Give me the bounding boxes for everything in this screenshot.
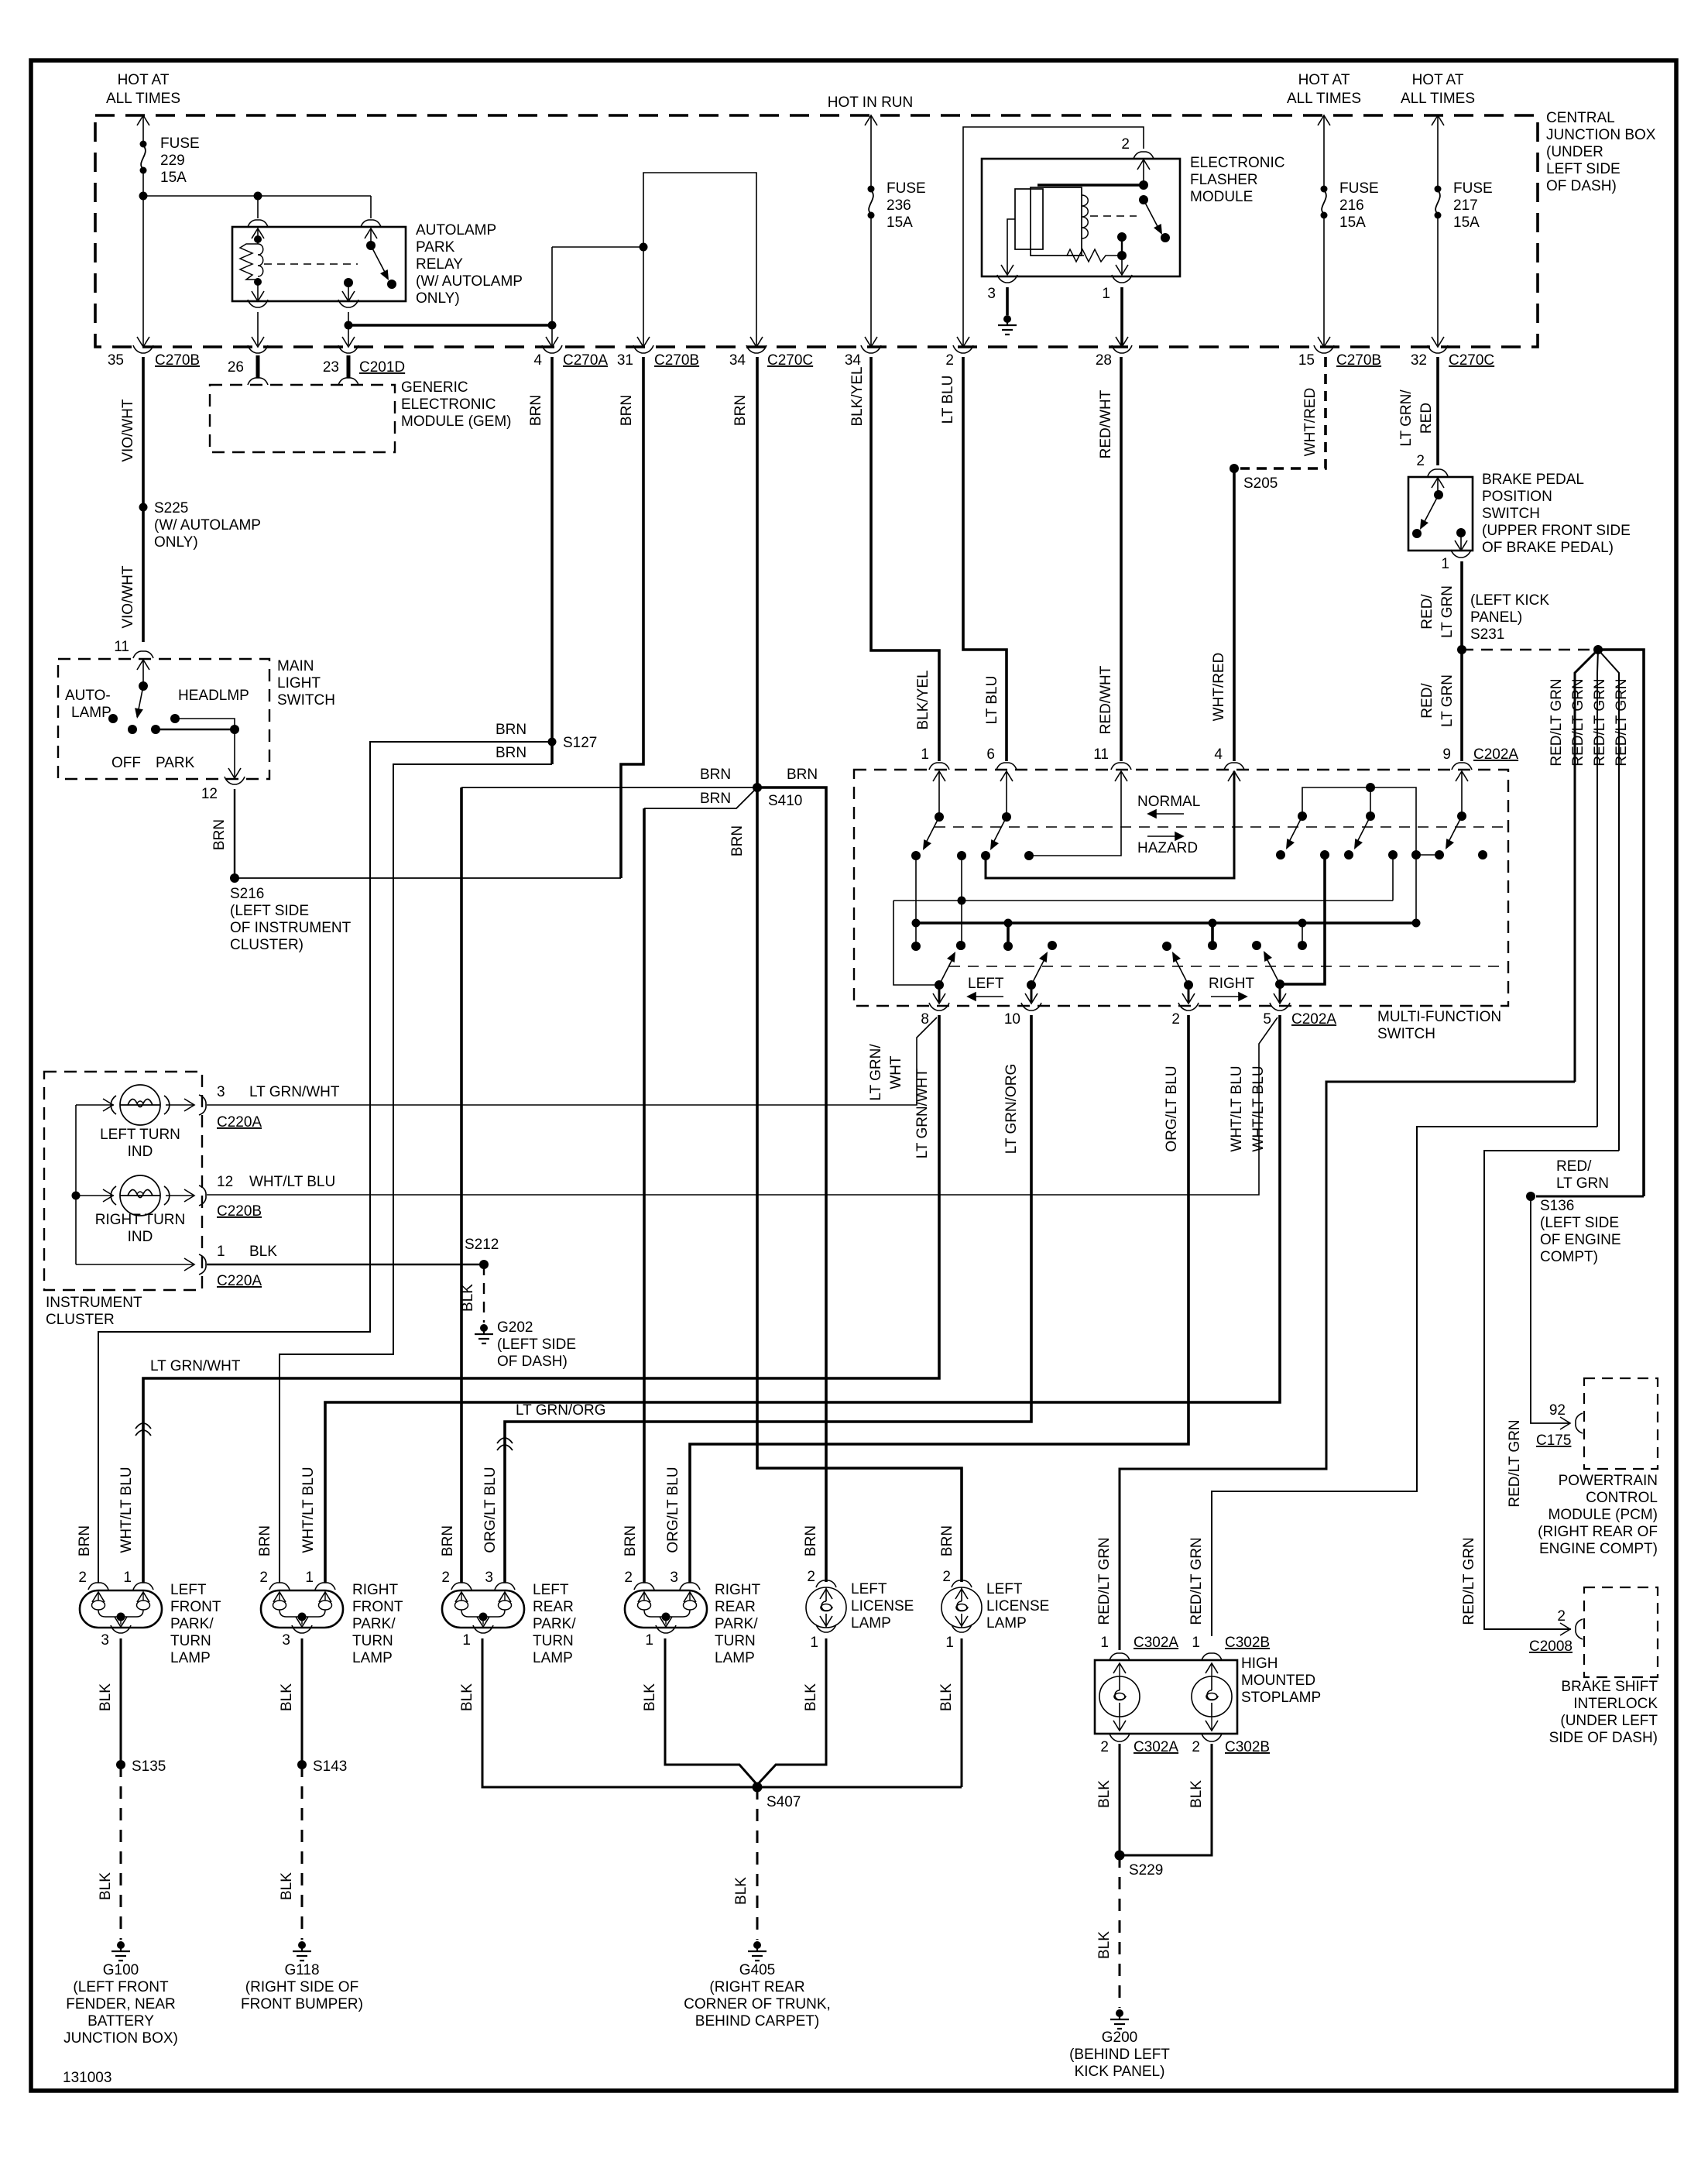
MFS row separator dashed (normal/hazard): [935, 826, 1506, 828]
svg-text:GENERIC: GENERIC: [401, 379, 468, 396]
flasher pin 3 connector: [997, 275, 1017, 283]
svg-text:RED/LT GRN: RED/LT GRN: [1507, 1419, 1523, 1507]
svg-text:6: 6: [986, 746, 995, 763]
MFS switch pin 10: [1027, 980, 1036, 990]
node junction on pin31 wire: [640, 243, 648, 252]
svg-text:RED/LT GRN: RED/LT GRN: [1549, 678, 1565, 766]
wire LT GRN/RED pin 32 to brake pedal position switch: [1436, 357, 1439, 465]
left turn indicator bulb: [111, 1085, 170, 1125]
svg-text:JUNCTION BOX: JUNCTION BOX: [1546, 127, 1656, 143]
svg-text:C202A: C202A: [1473, 746, 1518, 763]
svg-text:2: 2: [942, 1569, 951, 1585]
IC pin 12 connector: [166, 1195, 194, 1196]
MFS top pin 11 connector: [1111, 763, 1131, 770]
wire RED/LT GRN riser 3 to brake shift interlock C2008: [1484, 1151, 1619, 1629]
instrument cluster dashed box: [44, 1072, 202, 1290]
svg-text:RED/WHT: RED/WHT: [1098, 665, 1114, 734]
relay dashed actuator link: [264, 263, 358, 265]
svg-text:RED/: RED/: [1419, 683, 1435, 719]
svg-text:LT BLU: LT BLU: [984, 676, 1000, 725]
svg-text:SWITCH: SWITCH: [277, 692, 335, 709]
svg-text:OF ENGINE: OF ENGINE: [1540, 1232, 1621, 1248]
wire LT BLU pin 2 to MFS pin 6: [963, 357, 1007, 761]
svg-text:15A: 15A: [1339, 214, 1366, 231]
svg-text:LT GRN/WHT: LT GRN/WHT: [150, 1358, 241, 1374]
node splice S231: [1457, 645, 1466, 654]
svg-text:HOT AT: HOT AT: [1298, 72, 1350, 88]
flasher pin 1 connector: [1112, 275, 1132, 283]
wire flasher pin 1 to CJB pin 28: [1120, 287, 1123, 345]
svg-text:OF DASH): OF DASH): [497, 1354, 568, 1370]
wire BRN S410 down to right license lamp pin 2: [757, 787, 962, 1582]
svg-text:S135: S135: [132, 1758, 166, 1775]
generic electronic module GEM dashed box: [210, 385, 395, 452]
svg-text:1: 1: [1441, 556, 1449, 572]
pin 34 C270C connector: [750, 337, 763, 347]
wire S231 down to MFS pin 9: [1460, 650, 1463, 761]
svg-text:2: 2: [1171, 1011, 1180, 1028]
svg-text:C2008: C2008: [1529, 1638, 1573, 1655]
node splice S212: [479, 1260, 489, 1269]
svg-text:HIGH: HIGH: [1241, 1655, 1278, 1672]
flasher switch blade: [1144, 200, 1161, 232]
svg-text:131003: 131003: [63, 2070, 111, 2086]
svg-text:HOT IN RUN: HOT IN RUN: [828, 94, 913, 111]
svg-text:LIGHT: LIGHT: [277, 675, 321, 691]
MFS left zigzag to LEFT switch pivot: [893, 901, 939, 985]
svg-text:PARK/: PARK/: [352, 1616, 396, 1632]
svg-text:C302A: C302A: [1134, 1739, 1178, 1755]
MLS contact HEADLMP: [170, 714, 180, 723]
node splice S205: [1230, 464, 1239, 473]
node splice S225: [139, 503, 148, 512]
wire junction to pin 4 BRN vertical: [348, 324, 552, 327]
svg-text:1: 1: [645, 1632, 653, 1649]
svg-text:2: 2: [1557, 1608, 1566, 1625]
brake switch common and blade: [1437, 478, 1439, 495]
wire BRN pin 4 C270A down to S127: [550, 357, 554, 764]
svg-text:LT GRN/WHT: LT GRN/WHT: [914, 1068, 931, 1158]
svg-text:ALL TIMES: ALL TIMES: [1287, 91, 1361, 107]
svg-text:TURN: TURN: [715, 1633, 756, 1649]
svg-text:ORG/LT BLU: ORG/LT BLU: [665, 1467, 681, 1553]
svg-text:(UNDER: (UNDER: [1546, 144, 1603, 160]
svg-text:ORG/LT BLU: ORG/LT BLU: [1164, 1065, 1180, 1151]
pin 35 C270B connector at CJB: [137, 337, 149, 347]
svg-text:BRN: BRN: [787, 767, 818, 783]
svg-text:G202: G202: [497, 1319, 533, 1336]
svg-text:(UNDER LEFT: (UNDER LEFT: [1560, 1713, 1658, 1729]
relay switch pin connector (top): [361, 220, 381, 227]
lamp body: [80, 1590, 162, 1628]
svg-text:RELAY: RELAY: [416, 256, 463, 273]
MFS bottom pin 8 connector: [929, 1003, 949, 1010]
svg-text:LT GRN/: LT GRN/: [868, 1044, 884, 1101]
svg-text:C220A: C220A: [217, 1114, 262, 1131]
ground G200: [1110, 2009, 1129, 2029]
wire BLK right rear lamp pin 1 to S407: [665, 1638, 757, 1785]
svg-text:S410: S410: [768, 793, 802, 809]
pin 28 (RED/WHT) connector: [1116, 337, 1128, 347]
svg-text:LT GRN: LT GRN: [1439, 585, 1456, 638]
svg-text:CONTROL: CONTROL: [1586, 1490, 1658, 1506]
svg-text:(BEHIND LEFT: (BEHIND LEFT: [1069, 2047, 1170, 2063]
fuse 216 15A with feed arrow: [1318, 115, 1330, 125]
svg-text:8: 8: [921, 1011, 929, 1028]
svg-text:RIGHT: RIGHT: [352, 1582, 399, 1598]
svg-text:BLK: BLK: [98, 1683, 114, 1711]
svg-text:15: 15: [1298, 352, 1315, 369]
MFS contact chain vertical at 1183: [915, 856, 917, 946]
wire BLK dashed S143 to G118: [301, 1765, 304, 1940]
svg-text:3: 3: [282, 1632, 290, 1649]
svg-text:PARK: PARK: [156, 755, 195, 771]
svg-text:(RIGHT REAR OF: (RIGHT REAR OF: [1538, 1524, 1658, 1540]
svg-text:VIO/WHT: VIO/WHT: [120, 399, 136, 462]
svg-text:BLK: BLK: [1096, 1931, 1113, 1959]
pin 32 C270C connector: [1432, 337, 1444, 347]
wire RED/LT GRN fan to vertical 2: [1597, 650, 1598, 1127]
wire WHT/RED S205 to MFS pin 4: [1233, 468, 1236, 761]
svg-text:(LEFT KICK: (LEFT KICK: [1470, 592, 1549, 609]
wire RED/LT GRN riser 4 to S136: [1536, 1196, 1644, 1198]
right license lamp (labelled LEFT LICENSE LAMP): [952, 1580, 972, 1587]
svg-text:ENGINE COMPT): ENGINE COMPT): [1539, 1541, 1658, 1557]
wire BRN S410 right branch to left license lamp pin 2: [757, 787, 826, 1582]
svg-text:SWITCH: SWITCH: [1377, 1026, 1435, 1042]
svg-text:FRONT: FRONT: [170, 1599, 221, 1615]
svg-text:G118: G118: [284, 1962, 319, 1978]
svg-text:FRONT BUMPER): FRONT BUMPER): [241, 1996, 363, 2012]
MFS pin 9 switch: [1456, 771, 1468, 781]
svg-text:S229: S229: [1129, 1862, 1163, 1879]
svg-text:WHT: WHT: [888, 1055, 904, 1089]
svg-text:15A: 15A: [160, 170, 187, 186]
wire BLK dashed S229 to G200: [1119, 1855, 1121, 2008]
svg-text:35: 35: [108, 352, 124, 369]
svg-text:23: 23: [323, 359, 339, 376]
svg-text:HOT AT: HOT AT: [1412, 72, 1464, 88]
svg-text:BRN: BRN: [77, 1525, 93, 1556]
svg-text:CLUSTER: CLUSTER: [46, 1312, 115, 1328]
relay bottom pin 26 connector: [252, 291, 264, 301]
ground G118: [293, 1941, 311, 1961]
svg-text:1: 1: [123, 1570, 132, 1586]
svg-text:BLK: BLK: [460, 1284, 476, 1312]
pin 26 connector at CJB: [252, 337, 264, 347]
wire fuse bus down to relay coil pin: [257, 196, 259, 218]
svg-text:1: 1: [810, 1635, 818, 1651]
svg-text:BRN: BRN: [732, 395, 749, 426]
svg-text:2: 2: [624, 1570, 633, 1586]
wire RED/LT GRN riser 1 to high mounted stoplamp C302A: [1120, 1082, 1575, 1650]
svg-text:RED/WHT: RED/WHT: [1098, 389, 1114, 458]
svg-text:LAMP: LAMP: [851, 1615, 891, 1631]
svg-text:OF INSTRUMENT: OF INSTRUMENT: [230, 920, 352, 936]
svg-text:WHT/LT BLU: WHT/LT BLU: [249, 1174, 335, 1190]
svg-text:(LEFT SIDE: (LEFT SIDE: [497, 1336, 576, 1353]
svg-text:HOT AT: HOT AT: [118, 72, 170, 88]
svg-text:3: 3: [217, 1084, 225, 1100]
svg-text:9: 9: [1442, 746, 1451, 763]
wire WHT/LT BLU IC pin12 to MFS pin 5 (thin): [207, 1017, 1278, 1195]
ground G405: [748, 1941, 767, 1961]
svg-text:LEFT: LEFT: [968, 976, 1004, 992]
wire BLK/YEL pin 34 to MFS pin 1: [871, 357, 939, 761]
svg-text:15A: 15A: [1453, 214, 1480, 231]
svg-text:217: 217: [1453, 197, 1478, 214]
svg-text:WHT/LT BLU: WHT/LT BLU: [1250, 1065, 1267, 1151]
wire BRN pin 31 C270B down to S216: [621, 357, 643, 878]
wire dashed S231 to right distribution node: [1462, 649, 1598, 650]
svg-text:BRN: BRN: [700, 767, 731, 783]
relay coil with parallel resistor: [257, 228, 259, 244]
wire BLK dashed S407 to G405: [756, 1787, 759, 1940]
svg-text:LT GRN/WHT: LT GRN/WHT: [249, 1084, 340, 1100]
wire LT GRN/WHT IC pin3 to MFS pin 8 (thin): [207, 1017, 937, 1105]
svg-text:2: 2: [259, 1570, 268, 1586]
svg-text:4: 4: [1214, 746, 1223, 763]
wire RED/LT GRN S136 to PCM C175 pin 92: [1531, 1196, 1570, 1423]
svg-text:LEFT SIDE: LEFT SIDE: [1546, 161, 1621, 177]
svg-text:(RIGHT REAR: (RIGHT REAR: [709, 1979, 804, 1995]
svg-text:12: 12: [201, 786, 218, 802]
wire BLK stoplamp C302B to S229: [1120, 1744, 1212, 1855]
svg-text:2: 2: [441, 1570, 450, 1586]
stoplamp bulb 1: [1099, 1676, 1140, 1717]
svg-text:HAZARD: HAZARD: [1137, 840, 1198, 856]
wire BLK right license lamp pin 1 to S407: [961, 1638, 963, 1787]
svg-text:WHT/RED: WHT/RED: [1302, 388, 1319, 457]
wire RED/LT GRN to vertical 4: [1598, 650, 1644, 1196]
wire WHT/LT BLU MFS pin 5 to right front lamp pin 1: [325, 1015, 1280, 1583]
svg-text:5: 5: [1263, 1011, 1271, 1028]
svg-text:BRN: BRN: [729, 825, 746, 856]
pin 23 C201D connector at CJB: [342, 337, 355, 347]
wire fuse bus down to relay switch pin: [370, 196, 372, 218]
wire BRN S216 to pin 31 riser: [235, 877, 621, 879]
svg-text:LAMP: LAMP: [533, 1650, 573, 1666]
pin 34 (BLK/YEL) connector: [865, 337, 877, 347]
svg-text:C201D: C201D: [359, 359, 405, 376]
svg-text:C270C: C270C: [1449, 352, 1494, 369]
MLS switch common and blade: [142, 660, 144, 686]
svg-text:BLK: BLK: [279, 1683, 295, 1711]
wire RED/WHT pin 28 to MFS pin 11: [1120, 357, 1123, 761]
svg-text:PARK: PARK: [416, 239, 455, 256]
MLS contact AUTO-LAMP: [108, 714, 118, 723]
svg-text:4: 4: [533, 352, 542, 369]
IC internal wires: [76, 1104, 114, 1106]
svg-text:(W/ AUTOLAMP: (W/ AUTOLAMP: [154, 517, 261, 534]
brake shift interlock connector C2008 pin 2: [1560, 1623, 1570, 1635]
node splice S216: [230, 873, 239, 883]
svg-text:G100: G100: [103, 1962, 139, 1978]
MFS top pin 6 connector: [996, 763, 1017, 770]
svg-text:BRN: BRN: [496, 722, 526, 738]
node fuse229 output junction: [139, 192, 148, 201]
svg-text:COMPT): COMPT): [1540, 1249, 1598, 1265]
svg-text:PARK/: PARK/: [170, 1616, 214, 1632]
svg-text:LEFT: LEFT: [986, 1581, 1023, 1597]
svg-text:LAMP: LAMP: [170, 1650, 211, 1666]
wire pin 31 inside CJB down to connector: [643, 247, 644, 345]
svg-text:RED/: RED/: [1419, 594, 1435, 630]
svg-text:LAMP: LAMP: [986, 1615, 1027, 1631]
svg-text:1: 1: [1102, 286, 1110, 302]
svg-text:S136: S136: [1540, 1198, 1574, 1214]
node junction relay-GEM wire to BRN bus: [345, 321, 353, 330]
svg-text:32: 32: [1411, 352, 1427, 369]
svg-text:C270B: C270B: [1336, 352, 1381, 369]
svg-text:C270B: C270B: [155, 352, 200, 369]
svg-text:31: 31: [617, 352, 633, 369]
wire BRN MLS pin 12 to S216: [234, 789, 235, 878]
svg-text:RED/LT GRN: RED/LT GRN: [1614, 678, 1630, 766]
svg-text:IND: IND: [128, 1144, 153, 1160]
fuse 236 15A with HOT IN RUN arrow: [865, 115, 877, 125]
IC pin 3 connector: [166, 1104, 194, 1106]
node splice S143: [297, 1760, 307, 1769]
svg-text:(LEFT FRONT: (LEFT FRONT: [73, 1979, 169, 1995]
svg-text:1: 1: [945, 1635, 954, 1651]
svg-text:BLK: BLK: [249, 1244, 277, 1260]
svg-text:1: 1: [1192, 1635, 1200, 1651]
svg-text:G405: G405: [739, 1962, 775, 1978]
svg-text:LICENSE: LICENSE: [851, 1598, 914, 1614]
lamp body: [261, 1590, 343, 1628]
svg-text:FRONT: FRONT: [352, 1599, 403, 1615]
svg-text:LICENSE: LICENSE: [986, 1598, 1049, 1614]
pin 4 C270A connector: [546, 337, 558, 347]
svg-text:VIO/WHT: VIO/WHT: [120, 565, 136, 629]
svg-text:1: 1: [462, 1632, 471, 1649]
svg-text:C220A: C220A: [217, 1273, 262, 1289]
PCM connector C175 pin 92: [1560, 1417, 1570, 1429]
wire RED/LT GRN fan to vertical 3: [1598, 650, 1619, 1151]
svg-text:HEADLMP: HEADLMP: [178, 688, 249, 704]
svg-text:2: 2: [807, 1569, 815, 1585]
relay switch throw contact to pin 23: [344, 278, 353, 287]
svg-text:SIDE OF DASH): SIDE OF DASH): [1549, 1730, 1658, 1746]
svg-text:BLK: BLK: [803, 1683, 819, 1711]
svg-text:1: 1: [1100, 1635, 1109, 1651]
svg-text:JUNCTION BOX): JUNCTION BOX): [63, 2030, 178, 2047]
svg-text:ELECTRONIC: ELECTRONIC: [1190, 155, 1284, 171]
node splice S135: [116, 1760, 125, 1769]
svg-text:LEFT: LEFT: [170, 1582, 207, 1598]
node splice S407: [753, 1782, 763, 1793]
svg-text:MODULE (GEM): MODULE (GEM): [401, 413, 512, 430]
svg-text:S407: S407: [767, 1794, 801, 1810]
svg-text:OFF: OFF: [111, 755, 141, 771]
MFS thin bus: [893, 900, 1393, 901]
svg-text:2: 2: [1192, 1739, 1200, 1755]
wire RED/LT GRN riser 2 to stoplamp C302B: [1212, 1127, 1597, 1636]
svg-text:C270B: C270B: [654, 352, 699, 369]
MFS RIGHT switch (pin 2): [1184, 980, 1193, 990]
svg-text:MODULE: MODULE: [1190, 189, 1253, 205]
brake shift interlock dashed box: [1584, 1587, 1658, 1677]
wire RED/LT GRN brake switch pin 1 to S231: [1460, 561, 1463, 650]
wire BRN S127 branch to left front lamp pin 2: [98, 742, 552, 1583]
MLS pin 12 connector: [225, 777, 245, 784]
svg-text:28: 28: [1096, 352, 1112, 369]
node splice S136: [1526, 1192, 1535, 1201]
flasher transformer/relay element: [1015, 189, 1043, 249]
svg-text:LAMP: LAMP: [71, 705, 111, 721]
svg-text:MODULE (PCM): MODULE (PCM): [1549, 1507, 1658, 1523]
svg-text:S216: S216: [230, 886, 264, 902]
svg-text:ONLY): ONLY): [154, 534, 198, 551]
svg-text:BRN: BRN: [700, 791, 731, 807]
wire BLK left license lamp pin 1 to S407: [757, 1638, 826, 1785]
MFS upper right switch 1: [1298, 811, 1307, 821]
svg-text:10: 10: [1004, 1011, 1020, 1028]
svg-text:IND: IND: [128, 1229, 153, 1245]
svg-text:ORG/LT BLU: ORG/LT BLU: [482, 1467, 499, 1553]
svg-text:C270A: C270A: [563, 352, 608, 369]
svg-text:BLK: BLK: [1188, 1780, 1205, 1808]
svg-text:229: 229: [160, 153, 185, 169]
svg-text:(LEFT SIDE: (LEFT SIDE: [230, 903, 309, 919]
flasher pin 3 internal wire: [1007, 219, 1015, 273]
svg-text:LT GRN/ORG: LT GRN/ORG: [1003, 1064, 1020, 1154]
svg-text:PARK/: PARK/: [533, 1616, 576, 1632]
svg-text:2: 2: [1121, 136, 1130, 153]
svg-text:C202A: C202A: [1291, 1011, 1336, 1028]
wire WHT/RED dashed pin 15 to S205: [1240, 357, 1326, 468]
node splice S410: [753, 783, 762, 792]
svg-text:BRN: BRN: [939, 1525, 955, 1556]
relay coil pin connector (top): [248, 220, 268, 227]
svg-text:LT GRN/: LT GRN/: [1398, 389, 1415, 447]
svg-text:RED/LT GRN: RED/LT GRN: [1570, 678, 1586, 766]
svg-text:3: 3: [987, 286, 996, 302]
MFS bottom pin 10 connector: [1021, 1003, 1041, 1010]
wire fuse 229 to relay bus: [143, 195, 371, 197]
svg-text:MOUNTED: MOUNTED: [1241, 1673, 1315, 1689]
flasher internal switch common: [1143, 160, 1144, 185]
svg-text:S143: S143: [313, 1758, 347, 1775]
wire BLK left front lamp pin 3 to S135: [120, 1638, 122, 1765]
svg-text:CORNER OF TRUNK,: CORNER OF TRUNK,: [684, 1996, 831, 2012]
node splice S229: [1115, 1851, 1125, 1861]
svg-text:INSTRUMENT: INSTRUMENT: [46, 1295, 142, 1311]
MFS upper right switch 2: [1366, 811, 1375, 821]
MFS thick bus: [916, 921, 1416, 925]
wire BLK right front lamp pin 3 to S143: [301, 1638, 304, 1765]
svg-text:PARK/: PARK/: [715, 1616, 758, 1632]
svg-text:LAMP: LAMP: [352, 1650, 393, 1666]
svg-text:2: 2: [1416, 453, 1425, 469]
svg-text:RIGHT: RIGHT: [1209, 976, 1255, 992]
wire LT GRN/WHT MFS pin 8 to left front lamp pin 1: [143, 1015, 939, 1583]
node splice S127: [548, 738, 557, 746]
svg-text:LT GRN: LT GRN: [1439, 674, 1456, 727]
svg-text:LT BLU: LT BLU: [940, 376, 956, 424]
fuse 217 15A with feed arrow: [1432, 115, 1444, 125]
MFS bottom pin 5 connector: [1270, 1003, 1290, 1010]
svg-text:216: 216: [1339, 197, 1364, 214]
wire VIO/WHT pin 35 upper: [142, 196, 144, 347]
svg-text:RED/: RED/: [1556, 1158, 1592, 1175]
right turn indicator bulb: [111, 1175, 170, 1216]
pin 2 (LT BLU) connector: [957, 337, 969, 347]
flasher dashed actuator link: [1090, 215, 1137, 217]
svg-text:BRAKE PEDAL: BRAKE PEDAL: [1482, 472, 1584, 488]
wire BRN pin4 corner branch to right front lamp pin 2: [280, 764, 552, 1583]
